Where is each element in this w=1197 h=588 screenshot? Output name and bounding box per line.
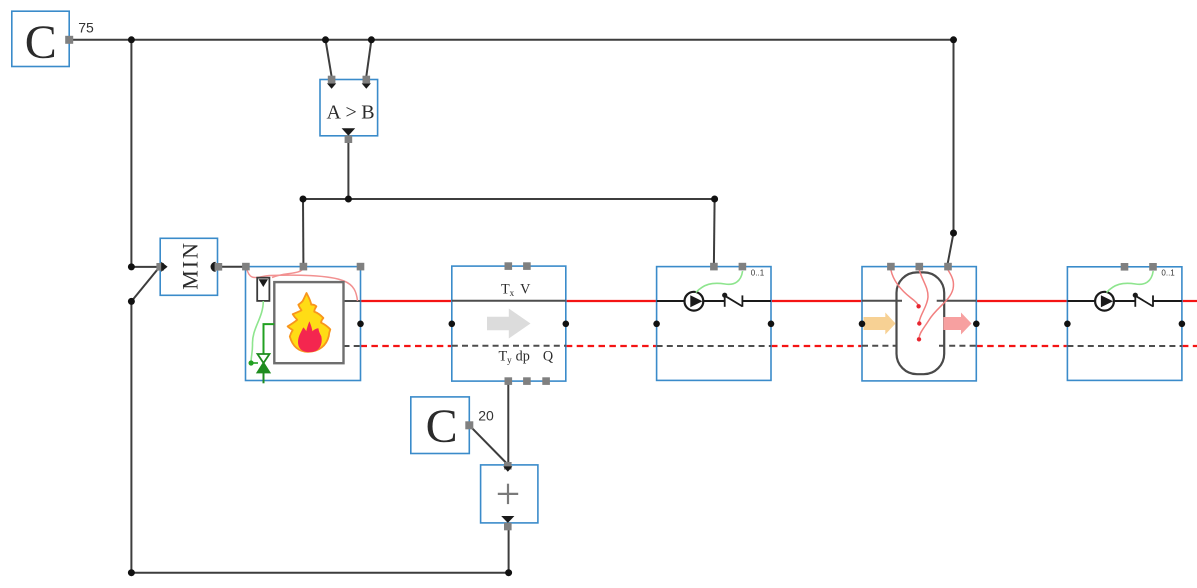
junction dot (MIN input B) — [128, 298, 135, 305]
wire: right branch down to storage tank port — [948, 40, 954, 265]
boiler supply outlet stub — [344, 300, 361, 302]
pump circle — [685, 292, 704, 311]
pump block PU2 — [1064, 263, 1185, 380]
junction dot (bottom bus left) — [128, 569, 135, 576]
storage tank ST1 — [859, 263, 980, 381]
constant C1 (75) — [12, 11, 94, 69]
pipe block P1 (Tx V / Ty dp Q) — [449, 262, 570, 385]
pump edge node dots — [653, 321, 660, 328]
wire: down to pump1 top port — [713, 199, 716, 264]
pipe: return line (red dashed) pump1 to tank — [771, 345, 862, 347]
pipe: return line (red dashed) pump2 to edge — [1182, 345, 1197, 347]
wire: adder output down to bottom bus — [508, 526, 510, 573]
svg-text:0..1: 0..1 — [751, 268, 765, 277]
pipe: supply line (red) pump2 to edge — [1182, 300, 1197, 302]
tank vessel — [897, 272, 945, 374]
junction dot (control bus right) — [711, 196, 718, 203]
junction dot (comparator output tee) — [345, 196, 352, 203]
boiler return inlet stub (dashed) — [344, 345, 361, 347]
flow arrow (light gray) — [487, 309, 531, 339]
pipe: supply line (red) pump1 to tank — [771, 300, 862, 302]
boiler setpoint curve (pink, to sensor) — [272, 268, 303, 278]
wire: down to boiler top port — [302, 199, 304, 264]
tank inlet arrow (wheat) — [864, 313, 896, 335]
flame outer — [288, 293, 331, 352]
wire: feedback bottom horizontal — [131, 572, 508, 574]
tank sensor dot 2 — [917, 321, 921, 325]
svg-text:A>B: A>B — [327, 101, 380, 123]
wire: MIN output to boiler — [218, 266, 243, 268]
svg-text:C: C — [25, 16, 57, 69]
pump2 circle — [1095, 292, 1114, 311]
tank sensor curve 1 — [891, 270, 919, 306]
tank sensor curve 2 — [919, 270, 928, 322]
fuel valve (check valve) — [258, 354, 270, 363]
pump2 control curve (green) — [1106, 271, 1153, 293]
junction dot (top bus / left branch) — [128, 36, 135, 43]
junction dot (bottom bus right) — [505, 569, 512, 576]
tank sensor dot 3 — [917, 337, 921, 341]
svg-text:C: C — [426, 400, 458, 453]
svg-text:0..1: 0..1 — [1161, 268, 1175, 277]
wire: feedback diagonal into MIN input B — [131, 268, 158, 301]
svg-text:MIN: MIN — [177, 241, 202, 290]
wire: control bus horizontal to boiler and pump — [303, 198, 715, 200]
junction dot (comparator A branch) — [322, 36, 329, 43]
pipe: return line (red dashed) boiler to pipe block — [361, 345, 452, 347]
tank sensor dot 1 — [916, 304, 920, 308]
pump2 top ports — [1121, 263, 1129, 271]
svg-text:75: 75 — [78, 20, 94, 36]
boiler control signal curve (pink) — [247, 268, 358, 301]
boiler B1 — [242, 263, 364, 384]
wire: branch to comparator input A — [326, 40, 332, 77]
pump2 check valve / switch — [1133, 293, 1138, 298]
pump2 pipe line segments — [1067, 300, 1095, 302]
comparator U1 A>B — [320, 76, 379, 143]
svg-text:20: 20 — [478, 407, 494, 423]
pipe supply line inside — [452, 300, 566, 302]
pipe: supply line (red) pipe block to pump1 — [566, 300, 657, 302]
wire: branch down-left to MIN input A — [131, 40, 158, 267]
constant C2 (20) — [411, 397, 494, 454]
pipe top ports — [505, 262, 513, 270]
wire: branch to comparator input B — [366, 40, 371, 77]
tank edge node dots — [859, 321, 866, 328]
pipe edge node dots — [449, 321, 456, 328]
pipe return line inside (dashed) — [452, 345, 566, 347]
tank supply stubs — [862, 300, 902, 302]
wire: pipe Ty output down to adder — [507, 385, 509, 463]
plus sign — [498, 493, 518, 495]
wire: comparator output down — [347, 137, 349, 199]
pump block PU1 — [653, 263, 774, 381]
adder U3 (+) — [481, 462, 538, 530]
pump2 edge node dots — [1064, 321, 1071, 328]
wire: constant C1 output bus (top horizontal) — [69, 39, 953, 41]
junction dot (right branch bend) — [950, 230, 957, 237]
pipe: return line (red dashed) pipe block to pump1 — [566, 345, 657, 347]
junction dot (MIN input A) — [128, 263, 135, 270]
selector U2 MIN — [156, 238, 222, 295]
tank top ports — [887, 263, 895, 271]
junction dot (top bus right end) — [950, 36, 957, 43]
green elbow valve to burner — [264, 324, 275, 355]
tank sensor curve 3 — [919, 270, 953, 337]
pump2 return line inside (dashed) — [1067, 345, 1182, 347]
burner chamber — [274, 282, 343, 363]
junction dot (comparator B branch) — [368, 36, 375, 43]
green node dot — [249, 360, 254, 365]
green link node to valve — [251, 362, 258, 364]
tank return stubs (dashed) — [862, 345, 897, 347]
green signal curve (sensor to valve node) — [251, 301, 263, 362]
svg-text:TydpQ: TydpQ — [499, 349, 554, 366]
junction dot (control bus left) — [300, 196, 307, 203]
boiler top ports — [242, 263, 250, 271]
boiler edge node dot — [357, 321, 364, 328]
pump top ports — [710, 263, 718, 271]
pipe: supply line (red) tank to pump2 — [976, 300, 1067, 302]
pump control curve (green) — [696, 271, 743, 293]
green stub below valve — [263, 373, 265, 384]
tank outlet arrow (pink) — [943, 313, 971, 335]
pump pipe line segments — [657, 300, 685, 302]
wire: constant C2 (20) diagonal to adder input — [469, 425, 507, 463]
check valve / switch symbol — [722, 293, 727, 298]
pipe: supply line (red) boiler to pipe block — [361, 300, 452, 302]
pipe bottom ports — [505, 377, 513, 385]
pump return line inside (dashed) — [657, 345, 771, 347]
pipe: return line (red dashed) tank to pump2 — [976, 345, 1067, 347]
flame inner — [298, 321, 322, 352]
sensor/actuator tube — [257, 278, 269, 301]
wire: feedback vertical left side — [130, 301, 132, 572]
